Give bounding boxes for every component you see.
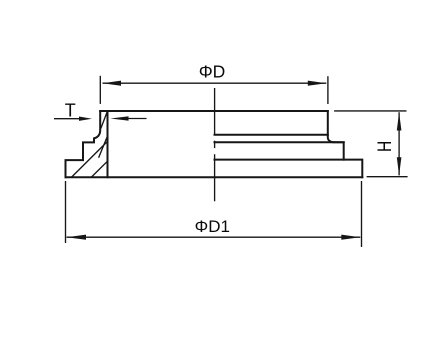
inner bore wall [107,111,109,177]
arrowhead H down [397,157,402,175]
hatch 45 long [72,141,108,177]
dim H extension line bottom [367,176,408,178]
dim PhiD extension line right [327,76,329,104]
ledge edge line right half [215,134,328,136]
dim PhiD1 extension line left [65,181,67,243]
arrowhead PhiD1 right [341,235,360,240]
svg-text:T: T [65,100,76,120]
centerline upper segment [214,88,216,135]
hatch wall upper [101,112,108,129]
arrowhead PhiD1 left [67,235,87,240]
arrowhead PhiD right [308,81,327,86]
svg-text:H: H [373,141,395,152]
arrowhead T right-pointing [79,117,92,121]
dim H dimension line [398,112,400,175]
body bottom surface [66,176,363,178]
arrowhead PhiD left [103,81,122,86]
body top surface [100,110,328,112]
centerline short dash [214,141,216,148]
hatch 45 short [92,161,108,177]
centerline lower segment [214,154,216,201]
arrowhead T left-pointing [111,116,129,120]
hatch wall lower steep [99,136,108,158]
neck step edge line right half [215,141,344,143]
dim T leader left [54,118,80,120]
dim PhiD1 dimension line [67,236,361,238]
dim PhiD1 extension line right [361,181,363,247]
dim PhiD dimension line [103,82,327,84]
svg-text:ΦD: ΦD [199,62,226,82]
dim H extension line top [334,110,406,112]
dim T leader right [128,118,147,120]
dim PhiD extension line left [99,76,101,104]
arrowhead H up [397,112,402,130]
flange top edge line right half [215,159,344,161]
svg-text:ΦD1: ΦD1 [195,217,230,236]
right outer profile (edge, fillet, neck, flange) [328,111,363,177]
left section outer profile (wall, fillet, steps) [66,111,101,177]
